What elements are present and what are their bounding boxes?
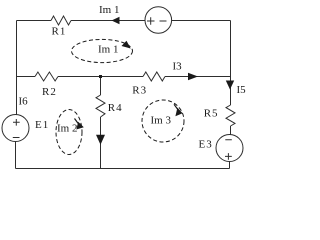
svg-text:R5: R5 <box>204 107 219 119</box>
svg-text:I5: I5 <box>237 84 247 96</box>
svg-text:R3: R3 <box>132 85 147 97</box>
svg-text:R2: R2 <box>42 86 57 98</box>
svg-text:I6: I6 <box>19 96 29 108</box>
svg-text:R1: R1 <box>52 26 67 38</box>
svg-text:R4: R4 <box>108 102 123 114</box>
svg-text:Im 2: Im 2 <box>57 123 77 135</box>
svg-text:Im 3: Im 3 <box>151 114 172 126</box>
svg-text:Im 1: Im 1 <box>98 43 118 55</box>
svg-text:Im 1: Im 1 <box>99 4 119 16</box>
svg-text:E3: E3 <box>199 139 213 151</box>
svg-text:E1: E1 <box>35 119 49 131</box>
svg-text:I3: I3 <box>173 61 183 73</box>
